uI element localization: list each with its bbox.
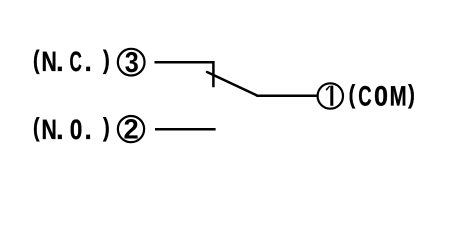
- svg-text:.: .: [85, 46, 92, 77]
- wire: N.O. lead: [155, 128, 216, 131]
- switch arm (movable contact): [207, 72, 258, 96]
- svg-text:C: C: [70, 46, 82, 77]
- svg-text:): ): [103, 44, 110, 74]
- svg-text:2: 2: [123, 114, 138, 145]
- svg-text:N: N: [41, 114, 56, 145]
- terminal label (N.C.): [33, 44, 110, 77]
- terminal number 3 (N.C. terminal): [118, 47, 145, 79]
- wire: COM lead: [257, 94, 317, 97]
- svg-text:(: (: [349, 79, 356, 109]
- terminal label (N.O.): [33, 112, 110, 145]
- terminal number 2 (N.O. terminal): [118, 114, 144, 145]
- svg-text:C: C: [358, 81, 371, 112]
- svg-text:(: (: [33, 112, 40, 142]
- terminal number 1 (COM terminal): [318, 83, 343, 108]
- svg-text:.: .: [56, 46, 63, 77]
- svg-text:N: N: [41, 46, 56, 77]
- svg-text:.: .: [56, 114, 63, 145]
- svg-text:0: 0: [70, 114, 83, 145]
- svg-text:0: 0: [374, 81, 388, 112]
- terminal label (COM): [349, 79, 415, 112]
- svg-text:.: .: [85, 114, 92, 145]
- svg-text:(: (: [33, 44, 40, 74]
- svg-text:M: M: [390, 81, 407, 112]
- svg-text:3: 3: [125, 47, 139, 79]
- wire: N.C. lead with fixed contact tick: [155, 62, 214, 87]
- svg-text:): ): [103, 112, 110, 142]
- svg-text:): ): [408, 79, 415, 109]
